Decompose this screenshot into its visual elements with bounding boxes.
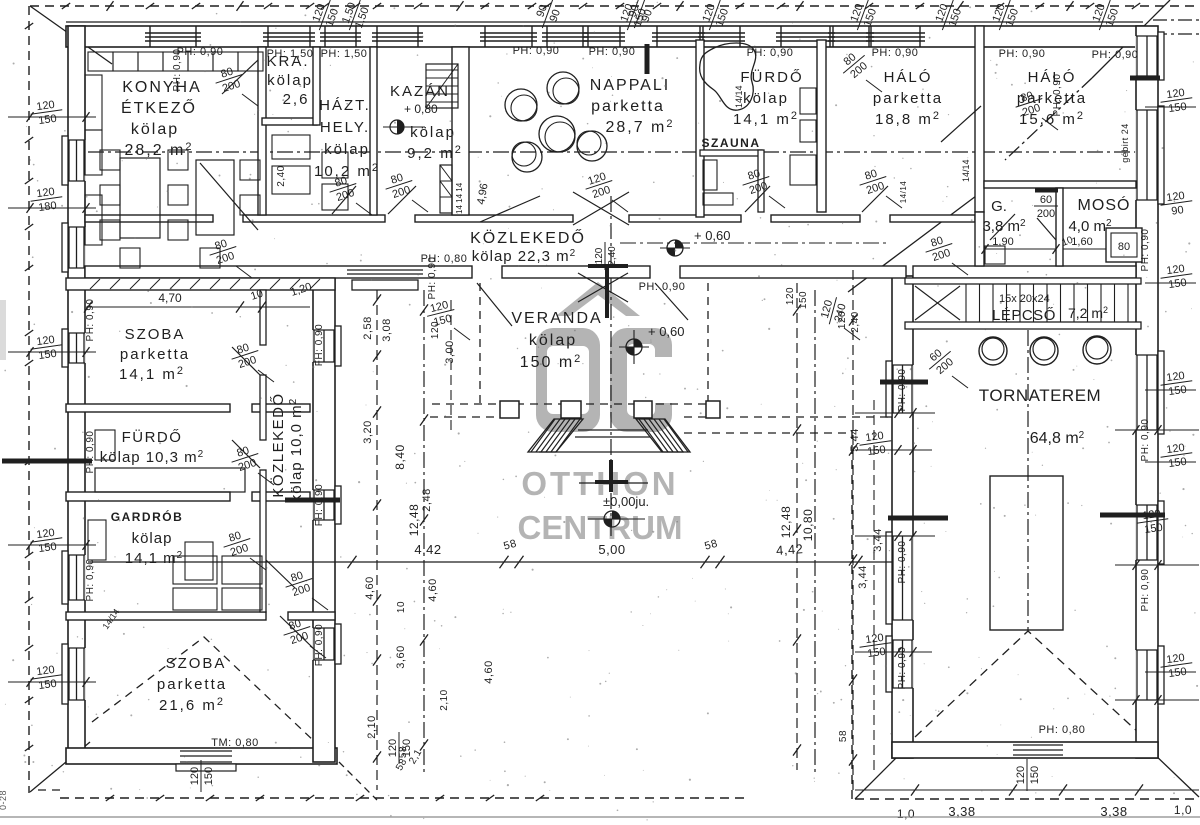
door swing HALO 15.6 [941, 106, 981, 142]
door swing HALO 18.8 [862, 186, 888, 212]
SZAUNA benches [703, 160, 733, 205]
svg-text:PH: 0,90: PH: 0,90 [85, 299, 96, 342]
wall FURDO-HALO [817, 40, 826, 212]
wall HALO-HALO [975, 26, 984, 212]
roof outline left dashed [28, 6, 30, 793]
wall KRA south [262, 118, 317, 125]
door swing FURDO 14.1 [745, 186, 770, 212]
room label G [982, 198, 1026, 235]
door swing corridor-veranda east [655, 283, 688, 320]
room label HALO 18.8 [873, 69, 943, 128]
right edge dim 120-90 [1159, 189, 1194, 219]
left edge dim line [8, 544, 96, 546]
svg-text:2,40: 2,40 [276, 165, 287, 186]
kitchen counter left [85, 75, 102, 245]
door swing corridor-veranda west [477, 283, 512, 326]
gym south wall [892, 742, 1158, 758]
bold lintel bar [285, 498, 340, 503]
survey marker 0.00 [588, 494, 649, 527]
svg-text:NAPPALI: NAPPALI [590, 77, 670, 94]
courtyard sw dim [387, 732, 413, 764]
svg-text:4,70: 4,70 [158, 291, 182, 305]
svg-text:KÖZLEKEDŐ: KÖZLEKEDŐ [269, 392, 287, 497]
dim chain C [450, 300, 452, 430]
left edge window dim [29, 526, 64, 556]
svg-text:5,44: 5,44 [849, 428, 861, 451]
right edge dim [1135, 507, 1170, 537]
dim chain D [796, 283, 798, 770]
top edge window dim [698, 0, 733, 35]
svg-text:PH: 1,50: PH: 1,50 [267, 48, 314, 60]
svg-text:15x 20x24: 15x 20x24 [999, 293, 1050, 305]
svg-text:KONYHA: KONYHA [122, 79, 202, 96]
gym west window dim line [855, 449, 932, 451]
svg-text:90: 90 [1171, 204, 1185, 218]
svg-text:4,42: 4,42 [414, 542, 441, 557]
svg-text:120: 120 [785, 287, 796, 305]
svg-text:kölap: kölap [131, 121, 179, 138]
svg-text:64,8 m2: 64,8 m2 [1030, 430, 1085, 447]
svg-text:150: 150 [798, 291, 809, 309]
svg-text:kölap: kölap [267, 72, 313, 89]
svg-text:21,6 m2: 21,6 m2 [159, 696, 225, 714]
dim 4,70 SZOBA [88, 281, 313, 307]
wall G-MOSO [1056, 188, 1063, 266]
svg-text:VERANDA: VERANDA [511, 310, 602, 327]
opening size label [818, 294, 850, 328]
svg-text:kölap: kölap [324, 141, 370, 158]
top edge dim 90-90 [623, 0, 658, 33]
svg-text:kölap 10,3 m2: kölap 10,3 m2 [100, 449, 204, 466]
svg-text:+ 0,60: + 0,60 [694, 228, 731, 243]
roof outline bottom-left dashed [60, 797, 745, 799]
svg-text:TM: 0,80: TM: 0,80 [211, 737, 258, 749]
axis line gym vertical [1027, 330, 1029, 631]
gym east wall tick line [1115, 699, 1199, 701]
svg-text:150: 150 [867, 444, 887, 458]
svg-text:28,2 m2: 28,2 m2 [124, 141, 193, 159]
svg-text:CENTRUM: CENTRUM [518, 509, 683, 546]
svg-text:150 m2: 150 m2 [520, 353, 583, 371]
svg-text:14 14 14: 14 14 14 [455, 182, 464, 214]
bold lintel bar [880, 380, 928, 385]
svg-text:150: 150 [1168, 384, 1188, 398]
veranda post 4 [706, 401, 720, 418]
windows in top wall [145, 26, 925, 47]
roof hip top-right [1092, 0, 1170, 78]
veranda step edge lines [539, 430, 684, 452]
svg-text:4,0 m2: 4,0 m2 [1068, 218, 1112, 235]
survey marker +0.60 corridor [660, 228, 731, 256]
kitchen table and chairs [100, 150, 260, 268]
scan artifact line [0, 816, 1200, 818]
svg-text:14/14: 14/14 [899, 181, 908, 204]
svg-text:10,2 m2: 10,2 m2 [314, 162, 380, 180]
KAZAN stair to cellar [426, 64, 458, 108]
bold lintel bar [1130, 76, 1160, 81]
gym west window dim line [855, 651, 932, 653]
wall HALO 15.6 south [984, 181, 1136, 188]
wall SZOBA 14.1 south [66, 404, 310, 412]
windows in right exterior wall [1135, 32, 1164, 704]
svg-text:1,90: 1,90 [992, 236, 1013, 248]
svg-text:2,10: 2,10 [439, 689, 450, 710]
wall GARDROB south [66, 612, 335, 620]
veranda post 2 [561, 401, 581, 418]
roof hip left-wing SE [339, 762, 377, 800]
watermark letter O [536, 328, 600, 432]
courtyard dashed line right of veranda [684, 416, 892, 418]
right edge window dim [1159, 86, 1194, 116]
svg-text:FH: 0,90: FH: 0,90 [314, 484, 325, 526]
svg-text:120: 120 [189, 767, 201, 785]
svg-text:2,40: 2,40 [850, 311, 861, 332]
gym porthole 1 [979, 337, 1007, 365]
svg-text:PH: 0,90: PH: 0,90 [897, 369, 908, 412]
svg-text:4,42: 4,42 [776, 541, 804, 558]
room label SZOBA 21.6 [157, 655, 227, 714]
bottom left ticks [106, 795, 544, 801]
survey cross 0.00 [579, 460, 648, 492]
gym west wall tick line [855, 412, 935, 414]
svg-text:1,0: 1,0 [897, 807, 915, 821]
gym interior mat rectangle [990, 476, 1063, 630]
svg-text:10: 10 [396, 601, 407, 613]
opening size label [856, 165, 891, 198]
svg-text:PH: 0,90: PH: 0,90 [513, 45, 560, 57]
right edge dim line [1145, 461, 1196, 463]
survey cross at veranda north [588, 266, 628, 318]
right edge dim line [1145, 389, 1196, 391]
roof hip dashed triangle in TORNATEREM [915, 631, 1139, 737]
svg-text:SZOBA: SZOBA [125, 326, 186, 343]
wall NAPPALI east [696, 40, 704, 217]
svg-text:180: 180 [38, 200, 58, 214]
svg-text:PH: 0,90: PH: 0,90 [1140, 229, 1151, 272]
svg-text:3,8 m2: 3,8 m2 [982, 218, 1026, 235]
top edge dim [846, 0, 881, 35]
svg-text:LÉPCSŐ: LÉPCSŐ [992, 307, 1056, 324]
roof outline courtyard right dashed [851, 430, 853, 799]
svg-text:10,80: 10,80 [801, 509, 815, 542]
watermark roof chevron [556, 282, 640, 316]
svg-text:5,00: 5,00 [598, 542, 625, 557]
svg-text:PH: 0,90: PH: 0,90 [747, 47, 794, 59]
roof valley over corridor east [848, 190, 984, 292]
left edge window dim [29, 98, 64, 128]
FURDO 14.1 fixtures [790, 88, 816, 185]
svg-text:0-28: 0-28 [0, 790, 8, 810]
door swing KAZAN [388, 186, 416, 214]
svg-text:parketta: parketta [157, 676, 227, 693]
svg-text:MOSÓ: MOSÓ [1078, 195, 1131, 214]
roof outline top dashed [30, 5, 1199, 7]
svg-text:FH: 0,90: FH: 0,90 [314, 624, 325, 666]
svg-text:14,1 m2: 14,1 m2 [733, 110, 799, 128]
eave line above top wall [66, 21, 1143, 23]
svg-text:kölap 22,3 m2: kölap 22,3 m2 [472, 248, 576, 265]
door swing KRA [222, 60, 258, 94]
window in gym south wall [1013, 743, 1063, 757]
left edge window dim [29, 663, 64, 693]
opening size label [739, 165, 774, 198]
right exterior wall [1136, 26, 1158, 758]
courtyard dashed line left of veranda [430, 416, 500, 418]
svg-text:14,1 m2: 14,1 m2 [119, 365, 185, 383]
opening size label [326, 172, 361, 205]
svg-text:150: 150 [38, 678, 58, 692]
room label KOZLEKEDO 22.3 [470, 228, 586, 265]
bold lintel vertical top wall [645, 44, 650, 74]
right edge dim line [1145, 671, 1196, 673]
veranda dashed south edge [432, 403, 710, 405]
corridor north wall [85, 215, 975, 222]
opening size label [582, 169, 617, 202]
courtyard dashed line 2 [684, 432, 852, 434]
dim line MOSO 1,60 [1063, 236, 1106, 249]
roof valley top-right dashdot [1005, 78, 1092, 160]
corridor south wall [85, 266, 1136, 278]
dim chain G [873, 400, 875, 770]
bold lintel bar [1035, 188, 1058, 193]
dim chain B [423, 290, 425, 775]
left exterior wall [68, 26, 85, 762]
wall corridor 10.0 west [260, 290, 266, 612]
SZOBA 21.6 furniture [185, 542, 213, 580]
gym east wall tick line [1115, 429, 1199, 431]
room label LEPCSO [992, 293, 1108, 324]
svg-text:parketta: parketta [591, 98, 665, 115]
svg-text:3,44: 3,44 [872, 528, 884, 551]
svg-text:HÁLÓ: HÁLÓ [884, 69, 933, 86]
opening size label [835, 46, 873, 84]
door swing KONYHA [200, 163, 258, 230]
veranda post 3 [634, 401, 652, 418]
svg-text:2,58: 2,58 [362, 316, 374, 339]
right edge dim line [1145, 282, 1196, 284]
svg-text:SZAUNA: SZAUNA [702, 136, 761, 150]
svg-text:1,0: 1,0 [1174, 803, 1192, 817]
main dimension line y562 [88, 556, 892, 569]
right edge window dim [1159, 369, 1194, 399]
top edge dim 150 [338, 0, 373, 35]
MOSO washing machine [1106, 228, 1142, 262]
axis stub right 1 [1153, 19, 1199, 21]
svg-text:TORNATEREM: TORNATEREM [979, 386, 1101, 405]
room label KRA [266, 53, 312, 108]
FURDO 14.1 organic shape [700, 43, 756, 110]
svg-text:parketta: parketta [873, 90, 943, 107]
wall KAZAN east [452, 47, 469, 215]
roof hip gym SW [855, 754, 900, 799]
svg-text:12,48: 12,48 [407, 504, 421, 537]
veranda steps right ramp [626, 415, 716, 456]
top edge dim [988, 0, 1023, 35]
gym east wall tick line [1115, 564, 1199, 566]
svg-text:3,44: 3,44 [857, 565, 869, 588]
top edge dim 90-90 [531, 0, 566, 33]
gym south window dim [1015, 759, 1041, 791]
svg-text:PH: 0,90: PH: 0,90 [427, 257, 438, 300]
svg-text:PH: 0,90: PH: 0,90 [1052, 74, 1063, 117]
svg-text:kölap: kölap [529, 332, 577, 349]
svg-text:PH: 0,90: PH: 0,90 [1140, 569, 1151, 612]
svg-text:150: 150 [1168, 666, 1188, 680]
svg-text:120: 120 [594, 247, 605, 264]
svg-text:2,10: 2,10 [366, 715, 378, 738]
roof hip dashed in SZOBA 21.6 [92, 637, 315, 742]
room label FURDO 14.1 [733, 68, 804, 128]
opening size label [921, 342, 959, 380]
watermark letter C [610, 328, 672, 432]
door swing MOSO [1037, 218, 1056, 240]
opening size label [1012, 87, 1047, 120]
svg-text:4,60: 4,60 [427, 578, 439, 601]
wall SZAUNA partition [700, 150, 764, 212]
svg-text:3,08: 3,08 [381, 318, 393, 341]
svg-text:3,20: 3,20 [362, 420, 374, 443]
svg-text:PH: 0,90: PH: 0,90 [897, 647, 908, 690]
wall G west [975, 212, 984, 266]
dim chain A [376, 290, 378, 790]
svg-text:4,60: 4,60 [483, 660, 495, 683]
window X corridor to veranda [578, 273, 628, 302]
gym west window dim [858, 429, 893, 459]
svg-text:+ 0,60: + 0,60 [648, 324, 685, 339]
svg-text:3,60: 3,60 [395, 645, 407, 668]
right edge window dim [1159, 262, 1194, 292]
svg-text:HELY.: HELY. [320, 119, 370, 136]
svg-text:PH: 0,90: PH: 0,90 [897, 541, 908, 584]
svg-text:parketta: parketta [120, 346, 190, 363]
svg-text:PH: 0,90: PH: 0,90 [172, 49, 183, 92]
svg-text:gébirt 24: gébirt 24 [1120, 123, 1130, 163]
veranda dashed west edge [479, 283, 481, 404]
left edge dim line [8, 116, 96, 118]
survey marker +0.60 veranda [619, 324, 685, 364]
window corridor south onto veranda [347, 270, 423, 290]
svg-text:+ 0,80: + 0,80 [404, 102, 438, 116]
bold lintel bar [2, 459, 92, 464]
left wing south window dim [189, 760, 215, 792]
svg-text:7,2 m2: 7,2 m2 [1068, 305, 1108, 321]
door swing HAZT [332, 186, 356, 214]
gym west window dim [858, 631, 893, 661]
roof hip gym SE [1152, 752, 1199, 797]
svg-text:150: 150 [867, 646, 887, 660]
svg-text:PH: 0,90: PH: 0,90 [639, 281, 686, 293]
room label GARDROB [111, 509, 184, 567]
opening size label [282, 567, 317, 600]
left edge dim line [8, 351, 96, 353]
svg-text:18,8 m2: 18,8 m2 [875, 110, 941, 128]
KAZAN boiler [383, 102, 438, 134]
top edge window dim [1088, 0, 1123, 35]
svg-text:ÉTKEZŐ: ÉTKEZŐ [121, 98, 197, 117]
opening size label [220, 527, 255, 560]
svg-text:150: 150 [38, 541, 58, 555]
svg-text:PH: 0,90: PH: 0,90 [1140, 419, 1151, 462]
svg-text:150: 150 [38, 348, 58, 362]
kitchen counter top [88, 52, 263, 71]
svg-text:60: 60 [1040, 194, 1052, 206]
svg-text:PH: 1,50: PH: 1,50 [321, 48, 368, 60]
axis line through top wing [88, 151, 1136, 153]
gym porthole 3 [1083, 336, 1111, 364]
room label FURDO 10.3 [100, 428, 204, 466]
left edge dim line 180 [8, 207, 96, 209]
bold lintel bar [1100, 513, 1165, 518]
dim line G 1,90 [985, 236, 1056, 249]
svg-text:2,48: 2,48 [421, 488, 433, 511]
svg-text:HÁZT.: HÁZT. [319, 97, 371, 114]
windows in left wing courtyard wall [312, 326, 341, 664]
roof hip bottom-left [30, 742, 90, 792]
svg-text:kölap: kölap [132, 530, 173, 547]
svg-text:150: 150 [1168, 101, 1188, 115]
svg-text:PH: 0,80: PH: 0,80 [1039, 724, 1086, 736]
windows in left wall [62, 136, 86, 704]
door swing NAPPALI X [480, 192, 629, 225]
svg-text:58: 58 [838, 730, 849, 742]
gym west wall [892, 276, 913, 758]
svg-text:FH: 0,90: FH: 0,90 [314, 324, 325, 366]
axis line corridor [620, 242, 890, 244]
LEPCSO stairwell [905, 278, 1141, 329]
svg-text:14/14: 14/14 [961, 159, 971, 182]
top edge window dim [308, 0, 343, 35]
svg-text:PH: 0,90: PH: 0,90 [872, 47, 919, 59]
gym porthole 2 [1030, 337, 1058, 365]
svg-text:PH: 0,90: PH: 0,90 [999, 48, 1046, 60]
opening size label [228, 339, 263, 372]
room label MOSO [1068, 195, 1130, 235]
G closet [985, 246, 1005, 264]
svg-text:150: 150 [1168, 277, 1188, 291]
room label KAZAN kolap [407, 124, 463, 162]
svg-text:PH: 0,90: PH: 0,90 [1092, 49, 1139, 61]
left wing bottom wall [66, 748, 337, 764]
svg-text:150: 150 [1029, 766, 1041, 784]
scan smudge left edge [0, 300, 6, 360]
opening size label [922, 232, 957, 265]
svg-text:3,00: 3,00 [444, 340, 456, 363]
veranda dashed east edge [707, 283, 709, 404]
svg-text:9,2 m2: 9,2 m2 [407, 144, 463, 162]
roof hip top-left [30, 6, 112, 64]
svg-text:8,40: 8,40 [393, 444, 407, 469]
KRA shelves [272, 135, 310, 194]
left edge dim 120-180 [29, 185, 64, 215]
svg-text:PH: 0,90: PH: 0,90 [85, 431, 96, 474]
door swing FURDO 10.3 [232, 440, 260, 468]
dim pair 120-240 veranda door [594, 242, 618, 270]
opening size label [228, 442, 263, 475]
room label KOZLEKEDO 10.0 [269, 392, 305, 502]
svg-text:2,40: 2,40 [607, 246, 618, 266]
wall KONYHA east [258, 47, 266, 215]
svg-text:±0,00ju.: ±0,00ju. [603, 494, 649, 509]
veranda steps left ramp [518, 415, 608, 456]
door swing SZOBA 21.6 [280, 616, 313, 648]
FURDO 10.3 bathtub [95, 430, 245, 492]
KAZAN flue [440, 165, 452, 213]
top exterior wall [66, 26, 1143, 47]
dim chain F [852, 270, 854, 795]
svg-text:GARDRÓB: GARDRÓB [111, 509, 184, 524]
svg-text:PH: 0,90: PH: 0,90 [85, 559, 96, 602]
windows in gym west wall [886, 361, 914, 692]
